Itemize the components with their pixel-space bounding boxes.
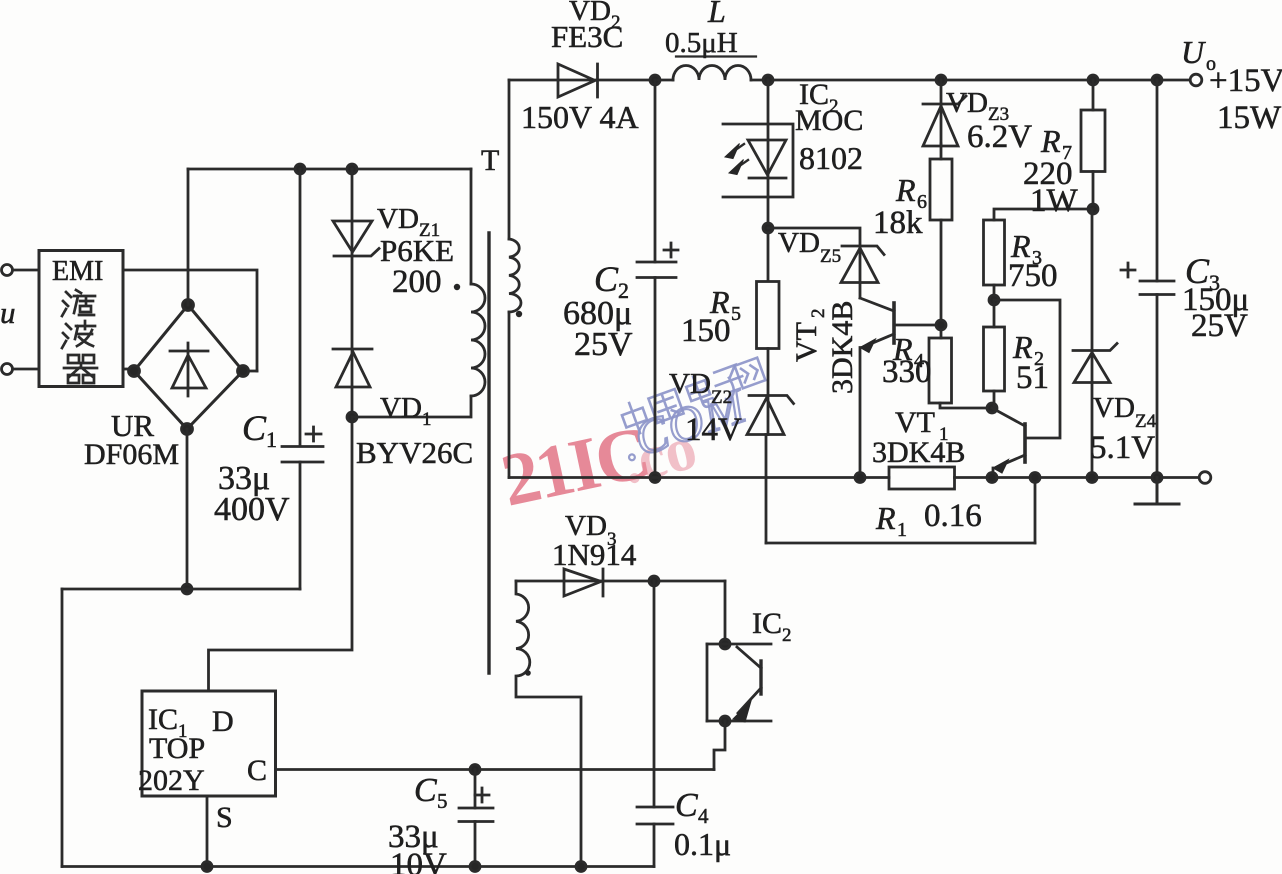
- svg-text:+15V: +15V: [1209, 63, 1282, 99]
- junction R3 / R2 / VT1 base wire (node A): [989, 295, 999, 305]
- capacitor C1: [282, 447, 323, 463]
- wire secondary bottom to output 0V rail: [508, 312, 511, 478]
- svg-text:0.16: 0.16: [924, 498, 982, 534]
- svg-text:VD: VD: [778, 227, 820, 259]
- EMI filter block: [39, 251, 123, 387]
- svg-text:400V: 400V: [214, 491, 290, 528]
- svg-text:18k: 18k: [873, 205, 923, 241]
- svg-text:25V: 25V: [1191, 308, 1248, 344]
- wire opto collector down: [724, 581, 727, 644]
- svg-text:51: 51: [1016, 360, 1049, 396]
- watermark blue char guo: [648, 389, 683, 423]
- svg-text:200: 200: [392, 264, 442, 300]
- capacitor C2 branch upper wire: [654, 80, 657, 262]
- svg-text:DF06M: DF06M: [84, 438, 179, 471]
- junction VT2 emitter on rail: [855, 473, 865, 483]
- svg-text:FE3C: FE3C: [551, 19, 623, 54]
- wire R6 to base node: [940, 220, 943, 338]
- junction aux return on ground rail: [576, 862, 586, 872]
- wire VDZ5 to VT2 collector: [860, 298, 894, 311]
- svg-text:R: R: [1040, 123, 1061, 159]
- svg-text:10V: 10V: [390, 847, 447, 874]
- wire node to R3 top: [994, 209, 1093, 220]
- svg-text:Z5: Z5: [820, 246, 841, 267]
- zener VDZ1 P6KE200: [333, 221, 379, 256]
- wire output 0V rail: [509, 476, 1199, 479]
- EMI block text: lü (filter char 1): [62, 290, 95, 316]
- zener VDZ5: [841, 246, 884, 283]
- resistor R1 0.16 (current sense): [889, 467, 955, 489]
- junction C3 branch top: [1152, 75, 1162, 85]
- resistor R3 750: [984, 220, 1005, 285]
- zener VDZ2 14V: [747, 396, 794, 435]
- wire R7 to node: [1092, 172, 1095, 210]
- resistor R4 330: [929, 338, 952, 403]
- junction C5 top: [470, 765, 480, 775]
- VT2 base wire to R6/R4 node: [894, 324, 941, 327]
- VT1 emitter with arrow: [997, 455, 1025, 467]
- wire R5 to VDZ2: [767, 349, 770, 435]
- wire bridge bottom to DC- node: [186, 429, 189, 589]
- wire IC1 D pin to primary return: [209, 417, 353, 691]
- IC2 phototransistor bar: [759, 661, 762, 694]
- wire input top to EMI: [13, 269, 39, 272]
- svg-text:1: 1: [897, 519, 907, 541]
- svg-text:1W: 1W: [1030, 183, 1079, 219]
- svg-text:P6KE: P6KE: [380, 233, 454, 268]
- svg-text:750: 750: [1008, 258, 1058, 294]
- wire DC+ rail (top left horizontal): [188, 168, 471, 171]
- IC2 phototransistor emitter with arrow: [738, 688, 761, 713]
- input terminal bottom: [2, 364, 13, 375]
- label 3DK4B (VT2, rotated): [826, 301, 859, 394]
- junction S pin ground: [202, 862, 212, 872]
- wire DC- horizontal: [62, 588, 300, 591]
- bridge rectifier UR DF06M (diamond): [134, 305, 243, 429]
- junction VD1 bottom / primary return: [347, 412, 357, 422]
- wire EMI top output to corner node: [123, 270, 257, 371]
- resistor R5 150: [757, 282, 780, 349]
- wire C3 branch upper: [1156, 80, 1159, 281]
- svg-text:R: R: [895, 172, 916, 208]
- svg-text:1: 1: [266, 427, 277, 452]
- junction R7 bottom / R3 / VDZ4: [1088, 204, 1098, 214]
- junction R7 branch top: [1088, 75, 1098, 85]
- wire C4 branch upper: [653, 581, 656, 807]
- wire bridge top vertex to DC+ rail: [187, 169, 190, 305]
- junction bridge right vertex: [238, 366, 249, 377]
- svg-text:0.5μH: 0.5μH: [665, 27, 738, 59]
- diode VD1 BYV26C: [333, 349, 372, 387]
- svg-text:5: 5: [437, 789, 448, 813]
- wire C1 branch upper: [299, 169, 302, 446]
- output terminal Uo: [1190, 74, 1202, 86]
- wire R2 bottom to collector node: [993, 391, 996, 408]
- junction C1 top: [295, 164, 305, 174]
- wire rail to VDZ3: [940, 80, 943, 146]
- svg-text:BYV26C: BYV26C: [356, 435, 473, 470]
- wire VD2 to L: [655, 79, 673, 82]
- svg-text:Z4: Z4: [1135, 411, 1157, 432]
- svg-text:4: 4: [698, 804, 709, 828]
- junction bridge bottom vertex: [182, 424, 193, 435]
- svg-text:202Y: 202Y: [138, 764, 205, 797]
- svg-text:S: S: [216, 801, 233, 834]
- junction bridge left vertex: [129, 366, 140, 377]
- junction R4 / R2 / VT1 collector: [987, 403, 997, 413]
- wire VDZ1 branch upper: [351, 169, 354, 256]
- svg-text:8102: 8102: [799, 140, 863, 176]
- svg-text:C: C: [247, 754, 267, 787]
- diode VD3 1N914: [564, 569, 603, 596]
- aux winding phase dot: [525, 670, 531, 676]
- wire C5 branch upper: [474, 770, 477, 809]
- wire rail to R7: [1092, 80, 1095, 110]
- junction VD2 cathode / C2 top: [650, 75, 660, 85]
- wire aux winding to VD3: [516, 580, 725, 583]
- wire LED cathode down: [767, 178, 770, 281]
- junction jog on rail: [1030, 473, 1040, 483]
- watermark blue char wang: [735, 358, 766, 389]
- wire VDZ4 to rail: [1091, 383, 1094, 478]
- input terminal top (line u): [2, 265, 13, 276]
- wire DC+ rail to primary top: [470, 169, 473, 284]
- VT1 collector diagonal: [992, 408, 1025, 426]
- svg-text:VD: VD: [946, 87, 988, 119]
- wire C4 branch lower: [653, 824, 656, 867]
- wire opto emitter to C pin line: [714, 721, 725, 770]
- svg-text:VT: VT: [790, 322, 823, 362]
- LED emission arrow 1: [734, 144, 744, 151]
- resistor R2 51: [984, 327, 1005, 391]
- junction C3 / ground on rail: [1152, 473, 1162, 483]
- svg-text:150: 150: [681, 313, 731, 349]
- svg-text:15W: 15W: [1217, 100, 1282, 136]
- junction VDZ4 on rail: [1087, 473, 1097, 483]
- svg-text:150V 4A: 150V 4A: [521, 99, 639, 135]
- watermark blue char zhong: [619, 399, 651, 437]
- junction VD3 / C4 / opto collector: [649, 576, 659, 586]
- inductor label underline: [676, 55, 756, 57]
- LED of IC2 (triangle + cathode bar): [748, 140, 786, 178]
- wire jog up to 0V rail: [1034, 478, 1037, 544]
- zener VDZ3 6.2V: [923, 96, 966, 146]
- wire primary bottom horizontal: [352, 396, 471, 417]
- wire secondary top to VD2: [508, 80, 511, 239]
- wire input bottom to EMI: [13, 368, 39, 371]
- svg-text:L: L: [707, 0, 726, 29]
- svg-text:T: T: [481, 144, 499, 177]
- junction VDZ3 branch top: [936, 75, 946, 85]
- IC2 phototransistor collector stub: [707, 643, 771, 646]
- svg-text:5: 5: [731, 303, 741, 325]
- wire to zener VDZ5: [768, 228, 860, 298]
- junction bridge top vertex: [183, 300, 194, 311]
- junction VT2 base / R6 / R4: [936, 320, 946, 330]
- wire DC- left vertical: [61, 589, 64, 867]
- svg-text:EMI: EMI: [52, 256, 103, 287]
- svg-text:C: C: [675, 787, 698, 824]
- svg-text:1N914: 1N914: [552, 537, 637, 572]
- svg-text:VD: VD: [380, 392, 422, 424]
- svg-text:MOC: MOC: [795, 104, 863, 137]
- inductor L 0.5uH: [673, 66, 751, 81]
- output 0V terminal: [1199, 472, 1211, 484]
- wire node A to R2: [993, 300, 996, 327]
- watermark blue char dian: [684, 373, 715, 411]
- svg-text:C: C: [594, 259, 619, 299]
- junction VT1 emitter on rail: [987, 473, 997, 483]
- wire +15V rail to IC2 LED anode: [767, 80, 770, 178]
- wire VDZ3 to R6: [940, 144, 943, 159]
- svg-text:25V: 25V: [574, 326, 633, 363]
- capacitor C2 680u 25V: [637, 262, 676, 278]
- wire VDZ2 anode down across rail (no join): [765, 435, 768, 544]
- junction VDZ1 top: [347, 164, 357, 174]
- junction L output / opto branch: [763, 75, 773, 85]
- svg-text:Z2: Z2: [711, 387, 732, 408]
- svg-text:VD: VD: [377, 203, 419, 235]
- junction DC- node: [182, 584, 192, 594]
- capacitor C3 150u 25V: [1140, 281, 1174, 295]
- wire corner to bridge right vertex: [244, 370, 257, 373]
- svg-text:VD: VD: [1093, 392, 1135, 424]
- svg-text:TOP: TOP: [149, 732, 205, 765]
- svg-text:u: u: [0, 295, 16, 330]
- wire IC1 S pin to ground rail: [206, 796, 209, 867]
- svg-text:1: 1: [422, 409, 432, 430]
- wire EMI bottom output to bridge left vertex: [123, 368, 134, 371]
- svg-text:0.1μ: 0.1μ: [674, 826, 731, 862]
- watermark blue char zi: [711, 364, 748, 402]
- wire VD1 to bottom node: [351, 387, 354, 417]
- LED emission arrow 2: [738, 160, 748, 167]
- wire VDZ1 to VD1: [351, 256, 354, 387]
- svg-text:3DK4B: 3DK4B: [826, 301, 859, 394]
- svg-text:5.1V: 5.1V: [1090, 430, 1155, 466]
- wire VT2 emitter down to 0V rail: [859, 348, 862, 478]
- wire C1 branch lower: [299, 462, 302, 589]
- wire primary ground rail bottom: [62, 865, 654, 868]
- transistor VT1 3DK4B base bar: [1023, 424, 1027, 462]
- C2 plus sign: [664, 243, 678, 257]
- EMI block text: qi (filter char 3): [64, 355, 97, 383]
- IC1 TOP202Y block: [142, 691, 276, 796]
- svg-text:VD: VD: [669, 368, 711, 400]
- svg-text:C: C: [414, 772, 437, 809]
- wire C5 branch lower: [474, 822, 477, 867]
- VT2 emitter with arrow: [863, 334, 894, 347]
- capacitor C5 33u 10V: [459, 808, 493, 822]
- wire VT1 emitter to rail: [992, 468, 995, 478]
- svg-text:VT: VT: [895, 406, 935, 439]
- IC2 phototransistor collector diagonal: [737, 647, 761, 668]
- resistor R7 220 1W: [1081, 110, 1105, 172]
- ground: [1135, 478, 1179, 505]
- transformer primary phase dot: [454, 284, 460, 290]
- transformer T primary winding: [471, 284, 485, 396]
- junction LED cathode / VDZ5 branch: [763, 223, 773, 233]
- junction opto emitter: [720, 716, 730, 726]
- bridge internal diode: [170, 343, 208, 396]
- svg-text:R: R: [875, 500, 896, 536]
- transformer T auxiliary winding: [516, 581, 581, 867]
- IC2 phototransistor base bracket: [706, 644, 709, 721]
- svg-text:2: 2: [782, 625, 792, 646]
- svg-text:3DK4B: 3DK4B: [872, 436, 965, 469]
- C3 plus sign: [1121, 263, 1135, 277]
- wire R3 to node A: [993, 285, 996, 300]
- transformer core: [487, 233, 490, 673]
- wire VDZ4 branch upper: [1091, 209, 1094, 383]
- zener VDZ4 5.1V: [1073, 344, 1117, 383]
- svg-text:6.2V: 6.2V: [967, 119, 1032, 155]
- capacitor C2 branch lower wire: [654, 278, 657, 478]
- svg-text:C: C: [242, 408, 267, 448]
- junction C5 bottom: [470, 862, 480, 872]
- wire node A to VT1 base: [994, 300, 1060, 438]
- svg-text:D: D: [212, 705, 234, 738]
- resistor R6 18k: [930, 159, 952, 220]
- svg-text:330: 330: [882, 354, 932, 390]
- capacitor C4 0.1u: [637, 807, 673, 824]
- transformer secondary phase dot: [516, 311, 522, 317]
- junction opto collector: [720, 639, 730, 649]
- svg-text:IC: IC: [752, 607, 782, 640]
- wire IC1 C pin horizontal: [276, 768, 715, 771]
- junction C2 bottom: [650, 473, 660, 483]
- svg-text:U: U: [1181, 34, 1206, 70]
- C5 plus sign: [475, 788, 489, 802]
- IC2 phototransistor emitter stub: [707, 720, 771, 723]
- transformer T secondary winding: [509, 239, 521, 312]
- wire L to +15V rail: [751, 79, 1190, 82]
- svg-text:14V: 14V: [685, 412, 742, 448]
- wire C3 branch lower: [1156, 295, 1159, 478]
- wire feedback jog horizontal: [766, 542, 1035, 545]
- diode VD2 FE3C (output rectifier): [509, 64, 655, 97]
- label VT2 (rotated): [790, 309, 829, 363]
- wire R4 bottom to VT1 collector node: [940, 403, 992, 408]
- EMI block text: bo (filter char 2): [62, 321, 95, 348]
- optocoupler IC2 MOC8102 LED box: [723, 124, 793, 197]
- transistor VT2 3DK4B base bar: [892, 303, 896, 343]
- C1 plus sign: [306, 427, 321, 441]
